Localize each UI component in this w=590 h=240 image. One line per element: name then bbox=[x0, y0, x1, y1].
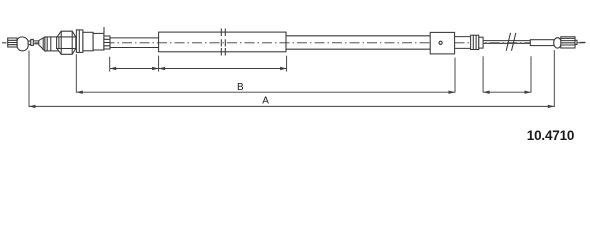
svg-text:10.4710: 10.4710 bbox=[527, 128, 574, 143]
svg-text:B: B bbox=[237, 82, 244, 93]
svg-text:A: A bbox=[262, 96, 269, 107]
